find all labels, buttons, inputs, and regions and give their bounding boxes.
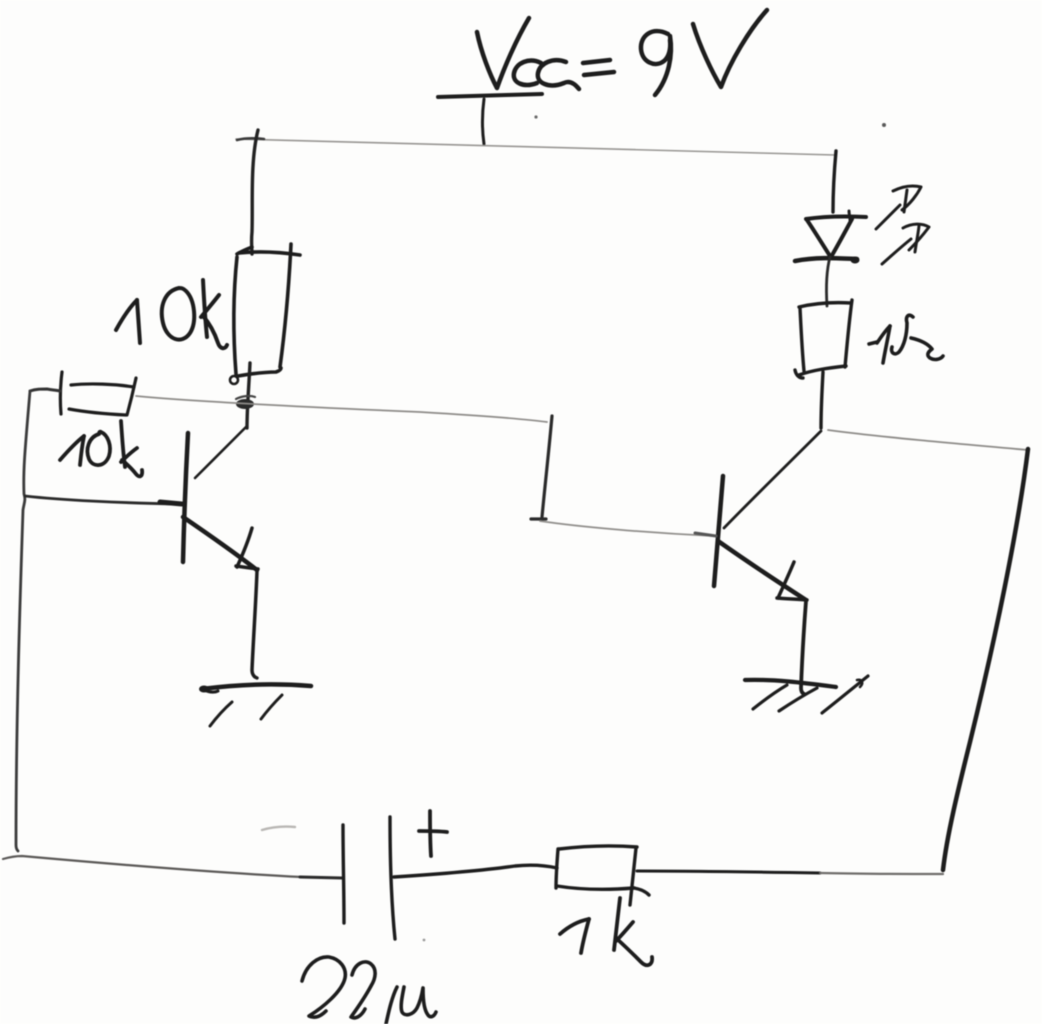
label 1k (R4 value) [560, 898, 652, 965]
wire step to Q2 base [540, 521, 714, 536]
wire left rail top hook [30, 389, 60, 391]
resistor R1 10k [230, 244, 300, 384]
capacitor C1 [343, 817, 395, 939]
wire C1 to R4 [394, 865, 557, 877]
wire cross-coupling node A to step [136, 396, 547, 422]
label 1k (R3 value) [869, 315, 943, 363]
ground Q2 [745, 676, 868, 713]
label 22u (C1 value) [302, 957, 436, 1024]
speck above 22u label [423, 939, 426, 942]
speck top middle [534, 115, 537, 118]
resistor R4 1k (bottom) [556, 846, 649, 905]
wire LED to R3 [826, 257, 830, 306]
transistor Q1 [183, 427, 258, 570]
faint scribble left of capacitor [262, 827, 295, 830]
wire left rail vertical [16, 391, 30, 851]
wire right rail down [943, 449, 1028, 870]
wire top rail [236, 138, 835, 155]
label Vcc = 9V [477, 10, 767, 95]
wire step down [542, 416, 552, 517]
wire rail to LED [833, 151, 836, 212]
wire R4 to right rail [637, 871, 943, 874]
power symbol Vcc [438, 94, 542, 144]
wire bottom left [3, 856, 342, 878]
wire Q2 emitter down [801, 601, 806, 694]
resistor R2 10k (base resistor) [60, 372, 136, 415]
label 10k (R1 value) [116, 280, 227, 348]
label 10k (R2 value) [60, 421, 142, 476]
wire Q1 emitter down [252, 571, 257, 678]
node B to right rail wire [828, 430, 1028, 450]
ground Q1 [199, 684, 311, 726]
node A junction [236, 399, 254, 409]
resistor R3 1k (LED resistor) [795, 300, 852, 378]
wire R1 to node A [247, 363, 250, 428]
label + polarity [419, 811, 447, 856]
speck top right [882, 123, 886, 127]
transistor Q2 [695, 431, 821, 600]
wire rail to R1 [252, 130, 258, 254]
wire R3 to node B [821, 372, 823, 428]
LED light arrows [876, 186, 929, 264]
wire Q1 base [25, 496, 182, 504]
diode LED D1 [795, 211, 866, 264]
